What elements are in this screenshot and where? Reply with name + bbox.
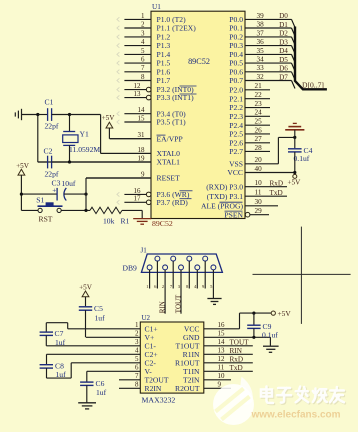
svg-text:D4: D4 xyxy=(279,47,288,55)
U1 pin 11 (TXD) P3.1 xyxy=(207,189,287,201)
ground (J1 pin5) xyxy=(207,299,221,305)
svg-text:+5V: +5V xyxy=(102,114,116,122)
svg-text:9: 9 xyxy=(141,170,145,178)
svg-text:P2.2: P2.2 xyxy=(229,103,243,112)
svg-text:8: 8 xyxy=(186,284,189,289)
svg-text:1: 1 xyxy=(141,12,145,20)
U2 pin 16 VCC xyxy=(184,321,240,333)
U1 type label 89C52 below box xyxy=(152,219,173,228)
svg-text:P2.5: P2.5 xyxy=(229,130,243,139)
svg-text:+: + xyxy=(52,186,56,194)
U1 pin 29 PSEN xyxy=(224,207,269,219)
svg-text:16: 16 xyxy=(218,321,226,329)
svg-text:ALE (PROG): ALE (PROG) xyxy=(201,201,243,210)
ground (under U1) xyxy=(133,210,151,224)
svg-text:4: 4 xyxy=(135,347,139,355)
svg-text:U1: U1 xyxy=(152,3,161,11)
svg-text:P2.3: P2.3 xyxy=(229,112,243,121)
svg-text:P0.1: P0.1 xyxy=(229,24,243,33)
svg-text:1: 1 xyxy=(146,284,149,289)
U1 pin 27 P2.6 xyxy=(229,135,270,147)
svg-text:22: 22 xyxy=(255,91,263,99)
svg-text:U2: U2 xyxy=(142,314,151,322)
svg-text:12: 12 xyxy=(218,355,226,363)
U2 pin 11 T1IN xyxy=(183,364,253,376)
svg-text:24: 24 xyxy=(255,109,263,117)
svg-text:P0.5: P0.5 xyxy=(229,59,243,68)
svg-text:VCC: VCC xyxy=(227,168,243,177)
svg-text:35: 35 xyxy=(257,47,265,55)
U1 pin 5 P1.4 xyxy=(117,47,171,59)
svg-text:P2.0: P2.0 xyxy=(229,85,243,94)
J1 pin 4 wire xyxy=(194,270,197,289)
svg-text:C5: C5 xyxy=(94,304,103,313)
watermark brand glyphs xyxy=(261,387,345,405)
svg-text:PSEN: PSEN xyxy=(224,210,243,219)
svg-text:1uf: 1uf xyxy=(95,313,106,322)
J1 pin 7 wire xyxy=(170,261,173,289)
svg-text:36: 36 xyxy=(257,38,265,46)
svg-text:www.elecfans.com: www.elecfans.com xyxy=(250,410,340,421)
U1 pin 36 P0.3 xyxy=(229,38,295,54)
svg-text:P1.5: P1.5 xyxy=(157,59,171,68)
svg-text:12: 12 xyxy=(134,82,142,90)
U1 pin 40 VCC xyxy=(227,165,294,177)
svg-text:89C52: 89C52 xyxy=(188,57,210,66)
svg-text:TxD: TxD xyxy=(270,189,283,197)
svg-text:2: 2 xyxy=(162,284,165,289)
J1 pin 9 wire xyxy=(202,261,205,289)
svg-text:2: 2 xyxy=(141,20,145,28)
svg-text:22pf: 22pf xyxy=(45,122,59,131)
svg-text:MAX3232: MAX3232 xyxy=(142,396,176,405)
svg-text:21: 21 xyxy=(255,82,263,90)
wire XTAL0 xyxy=(70,115,152,154)
svg-text:D2: D2 xyxy=(279,30,288,38)
svg-text:26: 26 xyxy=(255,126,263,134)
svg-text:TOUT: TOUT xyxy=(230,338,250,346)
U2 pin 13 R1IN xyxy=(183,347,253,359)
U2 pin 7 T2OUT xyxy=(119,372,169,384)
svg-text:D1: D1 xyxy=(279,21,288,29)
capacitor C8 1uf xyxy=(40,354,72,379)
U1 pin 15 P3.5 (T1) xyxy=(117,114,186,126)
capacitor C5 1uf xyxy=(79,304,105,338)
capacitor C4 0.1uf xyxy=(288,146,313,174)
U1 pin 37 P0.2 xyxy=(229,29,295,45)
svg-text:16: 16 xyxy=(134,187,142,195)
svg-text:P1.4: P1.4 xyxy=(157,50,171,59)
svg-text:P3.7 (RD): P3.7 (RD) xyxy=(157,198,189,207)
wire VSS to ground xyxy=(278,136,296,164)
U1 pin 38 P0.1 xyxy=(229,20,295,36)
svg-text:27: 27 xyxy=(255,135,263,143)
svg-text:P0.2: P0.2 xyxy=(229,33,243,42)
svg-text:6: 6 xyxy=(141,56,145,64)
svg-text:P1.3: P1.3 xyxy=(157,41,171,50)
power +5V (VCC) xyxy=(288,174,302,186)
svg-text:P0.3: P0.3 xyxy=(229,41,243,50)
U2 pin 6 V- xyxy=(87,364,152,376)
svg-text:RxD: RxD xyxy=(270,179,284,187)
U1 pin 39 P0.0 xyxy=(229,12,295,28)
svg-text:5: 5 xyxy=(135,355,139,363)
svg-text:11: 11 xyxy=(255,189,262,197)
J1 pin 1 wire xyxy=(146,270,149,289)
wire XTAL1 rail xyxy=(52,161,151,163)
U1 pin 35 P0.4 xyxy=(229,47,295,63)
U1 pin 22 P2.1 xyxy=(229,91,270,103)
net label RST xyxy=(39,215,53,224)
svg-text:P2.4: P2.4 xyxy=(229,121,243,130)
svg-text:38: 38 xyxy=(257,20,265,28)
J1 pin 3 wire xyxy=(178,270,181,314)
svg-text:89C52: 89C52 xyxy=(152,219,173,228)
svg-text:P0.7: P0.7 xyxy=(229,76,243,85)
svg-text:+5V: +5V xyxy=(278,309,292,318)
net label RIN (J1 pin2) xyxy=(159,301,167,313)
U1 pin 10 (RXD) P3.0 xyxy=(206,179,287,191)
U1 pin 14 P3.4 (T0) xyxy=(117,106,186,118)
U2 pin 14 T1OUT xyxy=(175,338,252,350)
svg-text:10uf: 10uf xyxy=(62,179,76,188)
ground (C6) xyxy=(78,403,96,409)
U1 pin 4 P1.3 xyxy=(117,38,171,50)
capacitor C3 10uf xyxy=(20,179,88,201)
svg-text:D5: D5 xyxy=(279,56,288,64)
svg-text:7: 7 xyxy=(135,372,139,380)
svg-text:P1.1 (T2EX): P1.1 (T2EX) xyxy=(157,24,197,33)
U2 pin 2 V+ xyxy=(86,330,154,342)
svg-text:VSS: VSS xyxy=(229,159,243,168)
U1 pin 13 P3.3 (INT1) xyxy=(117,90,197,102)
U1 pin 1 P1.0 (T2) xyxy=(117,12,186,24)
svg-text:3: 3 xyxy=(135,338,139,346)
capacitor C6 1uf xyxy=(80,371,106,402)
svg-text:1uf: 1uf xyxy=(96,388,107,397)
U1 pin 18 XTAL0 xyxy=(101,146,181,158)
svg-text:P1.6: P1.6 xyxy=(157,67,171,76)
node RESET vertical xyxy=(84,178,151,212)
crosshair marker xyxy=(253,227,351,324)
svg-text:14: 14 xyxy=(218,338,226,346)
svg-text:28: 28 xyxy=(255,144,263,152)
svg-text:10: 10 xyxy=(218,372,226,380)
svg-text:TOUT: TOUT xyxy=(174,294,182,313)
svg-text:Y1: Y1 xyxy=(80,130,89,139)
svg-text:32: 32 xyxy=(257,73,265,81)
U1 pin 12 P3.2 (INT0) xyxy=(117,82,197,94)
power +5V (EA/VPP) xyxy=(102,114,151,139)
U2 pin 1 C1+ xyxy=(68,321,158,333)
svg-text:RST: RST xyxy=(39,215,53,224)
svg-text:10: 10 xyxy=(255,179,263,187)
svg-text:7: 7 xyxy=(141,64,145,72)
svg-text:3: 3 xyxy=(178,284,181,289)
U1 pin 34 P0.5 xyxy=(229,56,295,72)
U1 pin 2 P1.1 (T2EX) xyxy=(117,20,196,32)
svg-text:6: 6 xyxy=(154,284,157,289)
U1 pin 30 ALE (PROG) xyxy=(201,198,278,210)
svg-text:P3.3 (INT1): P3.3 (INT1) xyxy=(157,93,195,102)
svg-text:+5V: +5V xyxy=(79,283,93,291)
svg-text:6: 6 xyxy=(135,364,139,372)
U2 pin 10 T2IN xyxy=(183,372,231,384)
U1 pin 3 P1.2 xyxy=(117,29,171,41)
svg-text:40: 40 xyxy=(255,165,263,173)
svg-text:7: 7 xyxy=(170,284,173,289)
svg-text:13: 13 xyxy=(218,347,226,355)
svg-text:20: 20 xyxy=(255,156,263,164)
svg-text:P1.2: P1.2 xyxy=(157,33,171,42)
svg-text:C6: C6 xyxy=(96,379,105,388)
svg-text:P2.7: P2.7 xyxy=(229,147,243,156)
U1 pin 28 P2.7 xyxy=(229,144,270,156)
svg-text:4: 4 xyxy=(194,284,197,289)
svg-text:8: 8 xyxy=(141,73,145,81)
svg-text:25: 25 xyxy=(255,118,263,126)
U1 pin 31 EA/VPP xyxy=(110,131,183,143)
U1 pin 19 XTAL1 xyxy=(38,154,180,166)
svg-text:P3.5 (T1): P3.5 (T1) xyxy=(157,118,187,127)
J1 pin 2 wire xyxy=(162,270,165,314)
J1 pin 8 wire xyxy=(186,261,189,289)
svg-text:D0: D0 xyxy=(279,12,288,20)
switch S1 xyxy=(21,195,90,212)
U2 pin 5 C2- xyxy=(71,355,156,367)
U1 pin 23 P2.2 xyxy=(229,100,270,112)
svg-text:37: 37 xyxy=(257,29,265,37)
J1 pin 6 wire xyxy=(154,261,157,289)
svg-text:29: 29 xyxy=(255,207,263,215)
U1 pin 24 P2.3 xyxy=(229,109,270,121)
svg-text:D3: D3 xyxy=(279,38,288,46)
svg-text:+5V: +5V xyxy=(288,178,302,186)
power +5V (C9) xyxy=(271,309,291,318)
svg-text:31: 31 xyxy=(138,131,146,139)
power +5V (U2) xyxy=(79,283,93,306)
U1 pin 26 P2.5 xyxy=(229,126,270,138)
U2 pin 3 C1- xyxy=(46,338,156,350)
svg-text:J1: J1 xyxy=(141,246,148,254)
svg-text:2: 2 xyxy=(135,330,139,338)
svg-text:D[0..7]: D[0..7] xyxy=(302,80,324,89)
power +5V (reset) xyxy=(16,162,30,211)
svg-text:RESET: RESET xyxy=(157,174,181,183)
svg-text:14: 14 xyxy=(138,106,146,114)
svg-text:TxD: TxD xyxy=(230,364,243,372)
svg-text:19: 19 xyxy=(138,154,146,162)
svg-text:P0.6: P0.6 xyxy=(229,67,243,76)
ground (C4 top, flipped) xyxy=(285,123,304,148)
svg-text:0.1uf: 0.1uf xyxy=(294,154,310,163)
svg-text:11: 11 xyxy=(218,364,225,372)
svg-text:1uf: 1uf xyxy=(55,338,66,347)
svg-text:17: 17 xyxy=(134,195,142,203)
U2 pin 12 R1OUT xyxy=(175,355,253,367)
IC U1 89C52 microcontroller xyxy=(151,3,245,219)
U1 pin 33 P0.6 xyxy=(229,64,295,80)
U2 pin 8 R2IN xyxy=(119,381,162,393)
resistor R1 10k xyxy=(90,207,142,225)
svg-text:(RXD) P3.0: (RXD) P3.0 xyxy=(206,182,243,191)
net label TOUT (J1 pin3) xyxy=(174,294,182,313)
svg-text:30: 30 xyxy=(255,198,263,206)
J1 pin 5 wire xyxy=(210,270,213,298)
crystal Y1 11.0592M xyxy=(63,113,101,164)
svg-text:10k: 10k xyxy=(103,217,115,226)
svg-text:3: 3 xyxy=(141,29,145,37)
capacitor C2 22pf xyxy=(38,147,59,179)
ground (crystal) xyxy=(15,109,38,120)
svg-text:1: 1 xyxy=(135,321,139,329)
svg-text:4: 4 xyxy=(141,38,145,46)
wire GND(15) to ground xyxy=(269,337,271,346)
svg-text:R2IN: R2IN xyxy=(145,384,162,393)
U2 pin 4 C2+ xyxy=(47,347,158,359)
svg-text:P0.4: P0.4 xyxy=(229,50,243,59)
svg-text:RIN: RIN xyxy=(159,301,167,313)
U2 pin 15 GND xyxy=(183,330,270,342)
wire VCC(16) to +5V rail xyxy=(240,312,272,329)
svg-text:13: 13 xyxy=(134,90,142,98)
watermark logo xyxy=(213,377,254,425)
svg-text:R2OUT: R2OUT xyxy=(175,384,200,393)
svg-text:34: 34 xyxy=(257,56,265,64)
capacitor C7 1uf xyxy=(40,323,68,347)
svg-text:15: 15 xyxy=(218,330,226,338)
U1 pin 16 P3.6 (WR) xyxy=(117,187,193,199)
U2 pin 9 R2OUT xyxy=(175,381,231,393)
connector J1 DB9 xyxy=(123,246,223,272)
svg-text:+5V: +5V xyxy=(16,162,30,170)
svg-text:9: 9 xyxy=(218,381,222,389)
node XTAL rail left xyxy=(36,113,39,162)
svg-text:DB9: DB9 xyxy=(123,264,138,273)
svg-text:(TXD) P3.1: (TXD) P3.1 xyxy=(207,192,243,201)
U1 pin 20 VSS xyxy=(229,156,278,168)
svg-text:33: 33 xyxy=(257,64,265,72)
svg-text:18: 18 xyxy=(138,146,146,154)
svg-text:8: 8 xyxy=(135,381,139,389)
ground (C9) xyxy=(263,346,279,352)
svg-text:R1: R1 xyxy=(121,217,130,226)
bus D[0..7] xyxy=(295,27,327,90)
svg-text:5: 5 xyxy=(141,47,145,55)
svg-text:S1: S1 xyxy=(36,195,44,204)
svg-text:C2: C2 xyxy=(44,147,53,156)
U1 pin 21 P2.0 xyxy=(229,82,270,94)
U1 pin 7 P1.6 xyxy=(117,64,171,76)
svg-text:EA/VPP: EA/VPP xyxy=(157,134,183,143)
svg-text:39: 39 xyxy=(257,12,265,20)
svg-text:9: 9 xyxy=(202,284,205,289)
watermark url xyxy=(250,410,340,421)
U1 pin 9 RESET xyxy=(86,170,180,182)
U1 pin 17 P3.7 (RD) xyxy=(117,195,192,207)
svg-text:5: 5 xyxy=(210,284,213,289)
svg-text:C1: C1 xyxy=(45,98,54,107)
svg-text:D6: D6 xyxy=(279,65,288,73)
svg-text:D7: D7 xyxy=(279,73,288,81)
U1 pin 25 P2.4 xyxy=(229,118,270,130)
U1 pin 8 P1.7 xyxy=(117,73,171,85)
svg-text:22pf: 22pf xyxy=(45,169,59,178)
svg-text:P2.1: P2.1 xyxy=(229,94,243,103)
svg-text:P1.7: P1.7 xyxy=(157,76,171,85)
IC U2 MAX3232 transceiver xyxy=(140,314,204,404)
U1 pin 6 P1.5 xyxy=(117,56,171,68)
svg-text:RIN: RIN xyxy=(230,347,243,355)
U1 pin 32 P0.7 xyxy=(229,73,295,89)
svg-text:RxD: RxD xyxy=(230,355,244,363)
capacitor C1 22pf xyxy=(38,98,70,131)
svg-text:XTAL1: XTAL1 xyxy=(157,158,181,167)
capacitor C9 0.1uf xyxy=(247,313,278,339)
svg-text:23: 23 xyxy=(255,100,263,108)
svg-text:15: 15 xyxy=(138,114,146,122)
svg-text:11.0592M: 11.0592M xyxy=(69,145,100,154)
